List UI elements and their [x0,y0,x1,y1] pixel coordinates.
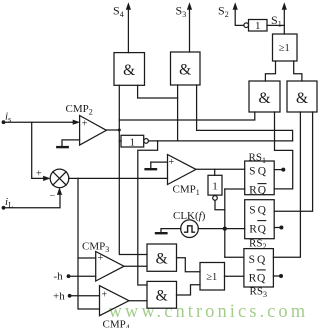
svg-text:Q: Q [257,254,266,266]
svg-text:&: & [123,62,135,79]
svg-text:Q: Q [257,273,266,285]
svg-text:R: R [249,184,257,196]
svg-text:1: 1 [130,137,136,149]
svg-text:1: 1 [255,20,261,32]
svg-text:R: R [249,273,257,285]
svg-text:&: & [156,288,168,305]
svg-text:&: & [258,90,270,107]
svg-text:+: + [36,169,42,180]
svg-text:CMP1: CMP1 [173,184,200,198]
svg-text:R: R [249,223,257,235]
svg-text:+: + [98,253,104,264]
svg-text:+: + [102,290,108,301]
svg-text:+: + [169,157,175,168]
svg-text:Q: Q [258,223,267,235]
svg-text:Q: Q [258,165,267,177]
svg-text:1: 1 [212,181,218,193]
svg-text:≥1: ≥1 [206,272,217,283]
svg-text:CMP4: CMP4 [103,319,130,328]
svg-text:≥1: ≥1 [279,43,290,54]
svg-text:S: S [249,254,255,266]
svg-text:www.cntronics.com: www.cntronics.com [109,302,309,322]
svg-text:+: + [82,119,88,130]
svg-text:&: & [156,251,168,268]
svg-text:Q: Q [258,184,267,196]
svg-text:&: & [179,62,191,79]
svg-text:CMP2: CMP2 [66,103,93,117]
svg-text:S: S [249,165,255,177]
svg-text:CLK(f): CLK(f) [173,210,206,222]
svg-text:&: & [296,90,308,107]
svg-text:CMP3: CMP3 [82,241,109,255]
svg-text:-h: -h [54,271,64,283]
svg-text:+h: +h [53,291,65,303]
svg-text:S: S [249,205,255,217]
svg-text:Q: Q [258,205,267,217]
svg-text:−: − [50,191,56,202]
